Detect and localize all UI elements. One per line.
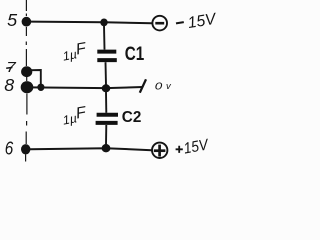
node: pin7/pin8 junction [37, 84, 44, 91]
pin 7 terminal dot [21, 66, 32, 77]
plus cross inside +15V terminal [154, 149, 166, 152]
wire: pin7 L-link down to pin8 rail [31, 70, 41, 85]
value label 1uF (C1) [61, 40, 89, 64]
svg-text:C2: C2 [122, 109, 142, 126]
minus bar inside -15V terminal [155, 22, 164, 25]
svg-text:C1: C1 [125, 44, 145, 65]
node: mid rail / C1-C2 junction [102, 84, 111, 92]
svg-text:0: 0 [155, 80, 163, 92]
wire: pin6 to +15V terminal [30, 148, 152, 150]
pin 8 terminal dot [21, 81, 34, 93]
wire: pin8 0V rail [31, 87, 143, 88]
capacitor C2 bottom plate [96, 121, 118, 125]
svg-text:5: 5 [7, 10, 17, 30]
value label 1uF (C2) [61, 104, 89, 128]
node: top wire / C1 junction [100, 19, 107, 27]
pin 5 terminal dot [22, 17, 32, 27]
pin 7 crossbar [6, 66, 12, 69]
node: bottom rail / C2 junction [102, 144, 111, 152]
capacitor C1 top plate [97, 50, 116, 54]
wire: pin5 to -15V terminal [30, 22, 152, 24]
wire: C2 bottom plate to bottom rail [105, 125, 107, 145]
+15V terminal circle [152, 143, 167, 158]
label -15V [176, 22, 184, 23]
pin 6 terminal dot [21, 144, 30, 154]
svg-text:8: 8 [4, 75, 14, 95]
-15V terminal circle [152, 16, 167, 31]
wire: node to C1 top plate [103, 25, 106, 50]
wire: mid rail to C2 top plate [105, 92, 107, 113]
svg-text:6: 6 [5, 139, 14, 159]
capacitor C2 top plate [97, 113, 118, 117]
wire: C1 bottom plate to mid rail [105, 62, 108, 85]
IC boundary chain line (dash-dot) [26, 0, 27, 162]
open terminal slash (0V) [140, 79, 146, 92]
capacitor C1 bottom plate [97, 58, 117, 62]
label +15V [176, 146, 183, 153]
